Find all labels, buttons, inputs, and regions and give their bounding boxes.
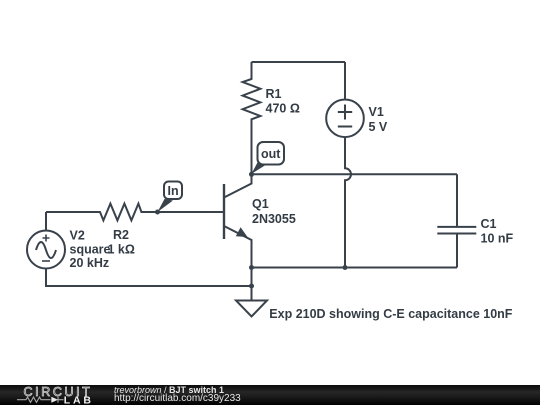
svg-text:Exp 210D showing C-E capacitan: Exp 210D showing C-E capacitance 10nF [269,307,512,321]
svg-text:V2: V2 [70,229,85,243]
svg-text:C1: C1 [481,217,497,231]
svg-text:1 kΩ: 1 kΩ [108,243,135,257]
svg-text:20 kHz: 20 kHz [70,256,110,270]
svg-text:In: In [168,184,179,198]
svg-text:5 V: 5 V [369,120,388,134]
svg-text:R2: R2 [113,228,129,242]
svg-text:out: out [261,147,281,161]
svg-text:V1: V1 [369,105,384,119]
svg-text:square: square [70,243,111,257]
svg-text:Q1: Q1 [252,197,269,211]
svg-text:470 Ω: 470 Ω [266,102,300,116]
svg-text:2N3055: 2N3055 [252,212,296,226]
svg-text:10 nF: 10 nF [481,232,514,246]
svg-text:LAB: LAB [64,394,94,405]
svg-text:R1: R1 [266,87,282,101]
